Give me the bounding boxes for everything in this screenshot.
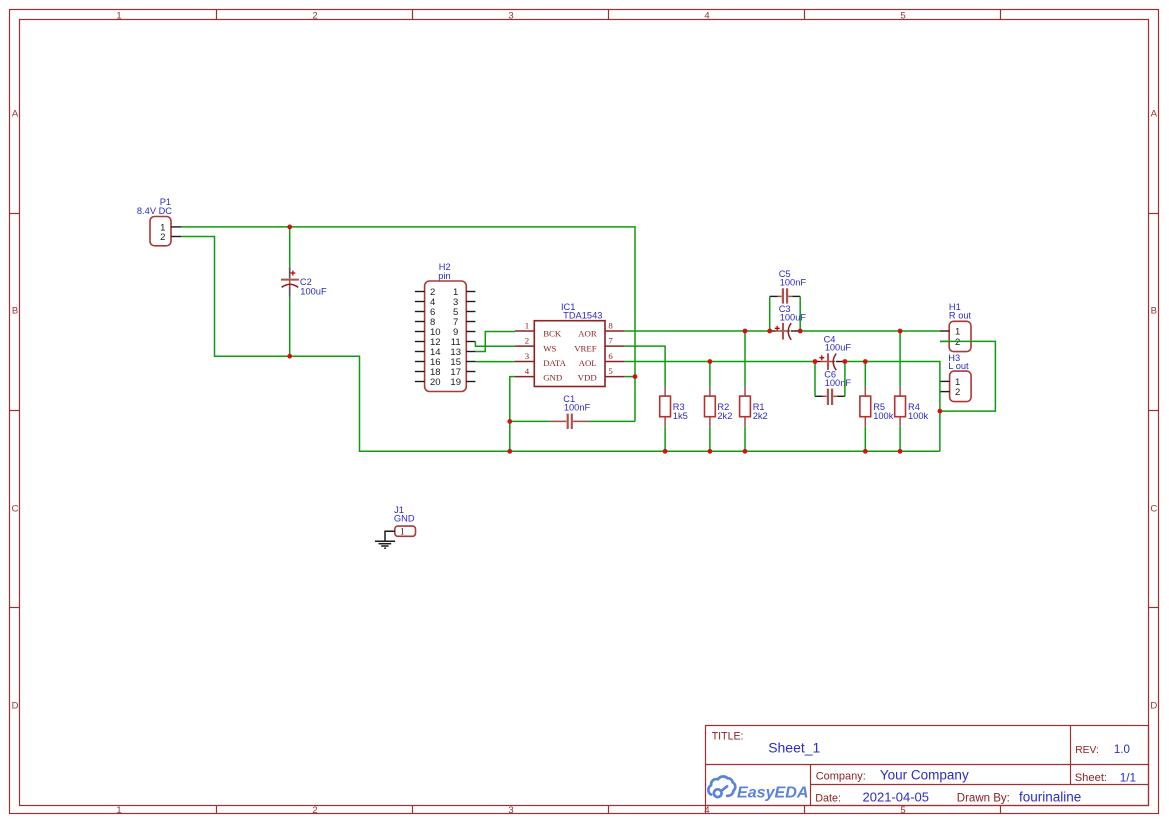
svg-text:5: 5 bbox=[900, 805, 905, 816]
R4 labels bbox=[908, 402, 929, 421]
svg-text:TITLE:: TITLE: bbox=[712, 730, 744, 742]
svg-text:1.0: 1.0 bbox=[1114, 744, 1130, 756]
svg-text:2: 2 bbox=[955, 337, 960, 348]
R5 labels bbox=[873, 402, 894, 421]
wire R1 bottom bbox=[744, 426, 746, 451]
wire R1 top branch bbox=[744, 331, 746, 387]
svg-text:7: 7 bbox=[608, 336, 613, 346]
wire R2 top branch bbox=[709, 362, 711, 387]
capacitor C3 (electrolytic) bbox=[770, 323, 801, 340]
svg-text:100nF: 100nF bbox=[564, 402, 591, 412]
svg-text:GND: GND bbox=[394, 514, 415, 524]
wire R3 bottom bbox=[664, 426, 666, 451]
J1 labels bbox=[394, 505, 415, 524]
wire AOR net left bbox=[625, 330, 770, 332]
connector H3 bbox=[940, 371, 971, 402]
junction dots bbox=[287, 225, 942, 454]
title block text bbox=[712, 730, 1107, 804]
svg-text:D: D bbox=[1150, 700, 1157, 711]
connector J1 bbox=[395, 526, 416, 538]
svg-text:2: 2 bbox=[312, 805, 317, 816]
svg-text:VDD: VDD bbox=[578, 373, 597, 383]
wire C6 bracket left bbox=[814, 362, 816, 397]
resistor R1 bbox=[740, 387, 751, 427]
svg-text:Your Company: Your Company bbox=[880, 768, 969, 783]
svg-text:1: 1 bbox=[955, 327, 960, 338]
C4 labels bbox=[824, 335, 852, 353]
wire H1.2 loop bbox=[940, 341, 996, 411]
svg-text:R out: R out bbox=[949, 311, 972, 321]
connector P1 bbox=[150, 217, 181, 246]
svg-text:2: 2 bbox=[955, 387, 960, 398]
H2 labels bbox=[438, 262, 450, 281]
C5 labels bbox=[779, 269, 807, 288]
svg-text:19: 19 bbox=[450, 377, 461, 388]
svg-text:A: A bbox=[1151, 108, 1158, 119]
svg-text:5: 5 bbox=[900, 10, 905, 21]
svg-text:5: 5 bbox=[608, 366, 613, 376]
svg-text:4: 4 bbox=[525, 366, 530, 376]
svg-text:BCK: BCK bbox=[543, 329, 562, 339]
svg-text:2: 2 bbox=[525, 336, 529, 346]
svg-text:20: 20 bbox=[430, 377, 441, 388]
svg-text:100nF: 100nF bbox=[780, 278, 807, 288]
svg-text:4: 4 bbox=[704, 10, 709, 21]
svg-text:100nF: 100nF bbox=[825, 378, 852, 388]
svg-text:2k2: 2k2 bbox=[717, 411, 732, 421]
svg-text:B: B bbox=[1151, 305, 1157, 316]
svg-text:3: 3 bbox=[508, 10, 513, 21]
H3 labels bbox=[948, 353, 969, 371]
svg-text:1: 1 bbox=[116, 10, 121, 21]
svg-text:GND: GND bbox=[543, 373, 562, 383]
svg-text:WS: WS bbox=[543, 343, 556, 353]
wire AOR net right bbox=[800, 330, 940, 332]
svg-text:EasyEDA: EasyEDA bbox=[737, 784, 809, 801]
wire AOL net right bbox=[845, 362, 940, 452]
wire H2.13 to IC1 BCK bbox=[475, 332, 515, 352]
svg-text:C: C bbox=[1150, 503, 1157, 514]
wire C5 bracket right bbox=[799, 296, 801, 331]
svg-text:Company:: Company: bbox=[816, 771, 866, 783]
svg-text:Drawn By:: Drawn By: bbox=[957, 792, 1010, 804]
svg-text:pin: pin bbox=[438, 271, 450, 281]
wire H2.15 to IC1 DATA bbox=[475, 361, 515, 363]
svg-text:Date:: Date: bbox=[815, 792, 841, 804]
svg-text:AOL: AOL bbox=[579, 358, 597, 368]
ground symbol bbox=[375, 531, 395, 548]
wire C1 right bbox=[589, 420, 635, 422]
wire IC1 GND leg bbox=[510, 377, 515, 452]
svg-text:8: 8 bbox=[608, 321, 613, 331]
svg-text:B: B bbox=[12, 305, 18, 316]
R2 labels bbox=[717, 402, 732, 421]
svg-text:D: D bbox=[12, 700, 19, 711]
capacitor C5 bbox=[770, 288, 801, 303]
wire R4 bottom bbox=[899, 426, 901, 451]
svg-text:100k: 100k bbox=[908, 411, 929, 421]
op-amp U / IC1 TDA1543 bbox=[515, 321, 625, 387]
wire C2 bottom bbox=[289, 297, 291, 356]
svg-text:A: A bbox=[12, 108, 19, 119]
svg-text:C: C bbox=[12, 503, 19, 514]
svg-text:Sheet:: Sheet: bbox=[1075, 772, 1107, 784]
svg-text:VREF: VREF bbox=[574, 343, 597, 353]
wire VREF to R3 bbox=[625, 346, 666, 387]
EasyEDA logo bbox=[708, 776, 735, 797]
svg-text:1: 1 bbox=[400, 528, 405, 538]
wire R4 top branch bbox=[899, 331, 901, 387]
capacitor C2 (electrolytic) bbox=[281, 267, 299, 297]
svg-text:2: 2 bbox=[160, 232, 165, 243]
svg-text:L out: L out bbox=[948, 361, 969, 371]
capacitor C1 bbox=[550, 414, 589, 429]
resistor R3 bbox=[660, 387, 671, 427]
svg-text:100uF: 100uF bbox=[300, 286, 327, 296]
svg-text:3: 3 bbox=[525, 351, 530, 361]
C2 labels bbox=[300, 277, 327, 296]
capacitor C4 (electrolytic) bbox=[815, 353, 845, 370]
wire R5 bottom bbox=[864, 426, 866, 451]
frame row letters bbox=[12, 108, 1158, 711]
svg-text:1: 1 bbox=[525, 321, 529, 331]
header H2 bbox=[415, 281, 476, 392]
resistor R4 bbox=[895, 387, 906, 427]
svg-text:100k: 100k bbox=[873, 411, 894, 421]
resistor R2 bbox=[705, 387, 716, 427]
svg-text:1k5: 1k5 bbox=[673, 411, 688, 421]
svg-text:DATA: DATA bbox=[543, 358, 566, 368]
wire H2.11 to IC1 WS bbox=[475, 342, 515, 347]
svg-text:REV:: REV: bbox=[1075, 745, 1099, 756]
wire P1.2 to GND rail bbox=[181, 237, 940, 452]
svg-text:2: 2 bbox=[312, 10, 317, 21]
svg-text:8.4V DC: 8.4V DC bbox=[137, 206, 172, 216]
svg-text:100uF: 100uF bbox=[780, 313, 807, 323]
R3 labels bbox=[673, 402, 688, 421]
svg-text:2021-04-05: 2021-04-05 bbox=[863, 790, 930, 805]
capacitor C6 bbox=[815, 389, 845, 405]
svg-text:Sheet_1: Sheet_1 bbox=[768, 740, 820, 756]
svg-text:1: 1 bbox=[116, 805, 121, 816]
resistor R5 bbox=[860, 387, 871, 427]
svg-text:100uF: 100uF bbox=[825, 343, 852, 353]
svg-text:TDA1543: TDA1543 bbox=[563, 310, 602, 320]
wire C5 bracket left bbox=[769, 296, 771, 331]
R1 labels bbox=[753, 402, 768, 421]
title block grid bbox=[706, 726, 1149, 814]
H1 labels bbox=[949, 302, 972, 321]
wire AOL net left bbox=[625, 361, 815, 363]
wire C1 left bbox=[510, 420, 550, 422]
wire C2 top bbox=[289, 227, 291, 267]
svg-text:6: 6 bbox=[608, 351, 613, 361]
wire C6 bracket right bbox=[844, 362, 846, 397]
C1 labels bbox=[563, 394, 590, 412]
wire R5 top branch bbox=[864, 362, 866, 387]
wire IC1 VDD stub link bbox=[625, 376, 635, 378]
connector H1 bbox=[940, 321, 971, 351]
C6 labels bbox=[824, 369, 851, 388]
svg-text:2k2: 2k2 bbox=[753, 411, 768, 421]
wire P1.1 to VDD rail bbox=[181, 227, 635, 422]
svg-text:1/1: 1/1 bbox=[1120, 770, 1136, 784]
C3 labels bbox=[779, 304, 807, 323]
frame column numbers bbox=[116, 10, 905, 816]
wire R2 bottom bbox=[709, 426, 711, 451]
svg-text:AOR: AOR bbox=[578, 329, 597, 339]
svg-text:3: 3 bbox=[508, 805, 513, 816]
P1 labels bbox=[137, 197, 172, 216]
svg-text:fourinaline: fourinaline bbox=[1019, 790, 1081, 805]
IC1 labels bbox=[561, 302, 602, 320]
